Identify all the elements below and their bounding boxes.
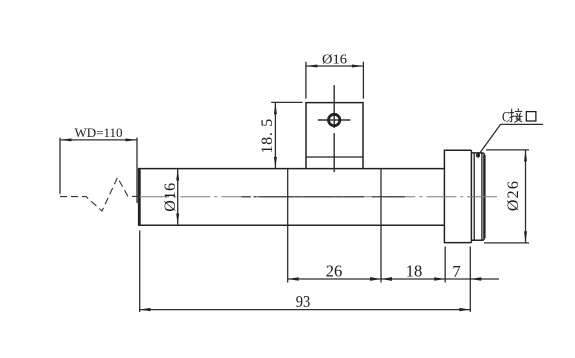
WD=110 dimension line — [60, 139, 137, 141]
dia16 top extension lines — [306, 62, 364, 99]
ext line at x445 for 18/7 — [444, 247, 446, 283]
svg-text:WD=110: WD=110 — [74, 125, 122, 140]
svg-text:26: 26 — [326, 262, 343, 281]
port inner shoulder line — [306, 156, 363, 158]
C-mount label underline — [501, 123, 544, 125]
port hole circle — [329, 114, 340, 125]
circle horizontal crosshair — [318, 119, 351, 121]
left dashed optical axis with break zigzag — [60, 178, 139, 212]
ring thick right face — [483, 155, 485, 238]
18.5 dimension line — [274, 103, 276, 169]
C-mount flange disk — [444, 150, 471, 242]
dia16 left dimension line — [177, 169, 179, 225]
ext line at x288 for 26 — [287, 169, 289, 283]
dia26 dimension line — [525, 150, 527, 243]
dia26 top arrow — [524, 150, 527, 162]
hanzi kou (口) drawn strokes — [526, 112, 536, 121]
tube left thick edge — [138, 168, 141, 226]
svg-text:18. 5: 18. 5 — [259, 118, 276, 154]
dimension row 26/18/7 line — [288, 278, 471, 280]
ext line at x381 for 26/18 — [380, 169, 382, 283]
ring inner line 2 — [481, 153, 483, 240]
port vertical centerline — [318, 85, 351, 172]
26 left arrow — [288, 277, 299, 281]
dia26 extension top — [486, 149, 529, 151]
C-mount leader dot — [476, 153, 480, 157]
svg-text:7: 7 — [452, 262, 460, 281]
svg-text:93: 93 — [296, 292, 311, 311]
WD=110 right arrow — [126, 138, 138, 141]
svg-text:Ø16: Ø16 — [162, 182, 179, 211]
93 left arrow — [140, 308, 151, 311]
7 right outside arrow at 470 — [470, 277, 481, 281]
ring inner line 1 — [473, 153, 475, 240]
svg-text:C: C — [502, 110, 510, 126]
WD=110 left arrow — [60, 138, 72, 141]
18.5 top arrow — [274, 103, 277, 115]
row1 outside tail right of 470 — [470, 278, 499, 280]
dimension row 93 line — [140, 309, 471, 311]
arrowheads — [60, 65, 527, 312]
18 left arrow at 381 — [381, 277, 392, 281]
svg-text:Ø26: Ø26 — [505, 180, 522, 211]
dia16 top left arrow — [306, 65, 318, 68]
dia16 top dimension line — [306, 65, 364, 67]
svg-text:Ø16: Ø16 — [322, 53, 347, 68]
WD=110 extension line right — [136, 138, 138, 203]
93 right arrow — [459, 308, 470, 311]
horizontal centerline of barrel — [139, 196, 497, 198]
18.5 bottom arrow — [274, 157, 277, 169]
hanzi jie (接) drawn strokes — [510, 109, 523, 123]
26 right arrow at 381 — [370, 277, 381, 281]
dia26 extension bottom — [484, 242, 529, 244]
ext line below tube left for 93 — [139, 231, 141, 313]
dia16 left top arrow — [176, 169, 179, 181]
dia16 left bottom arrow — [176, 214, 179, 226]
WD=110 extension line left — [59, 138, 61, 194]
C-mount label leader — [478, 124, 501, 155]
svg-text:18: 18 — [406, 262, 423, 281]
main body barrel outline — [139, 169, 444, 226]
C-mount thread ring — [471, 153, 484, 240]
18 right arrow at 445 — [434, 277, 445, 281]
dia16 top right arrow — [352, 65, 364, 68]
top port U1 outline — [306, 103, 363, 169]
ext line at x470 for 7/93 — [469, 247, 471, 313]
dia26 bottom arrow — [524, 231, 527, 243]
18.5 extension line top — [271, 101, 302, 103]
